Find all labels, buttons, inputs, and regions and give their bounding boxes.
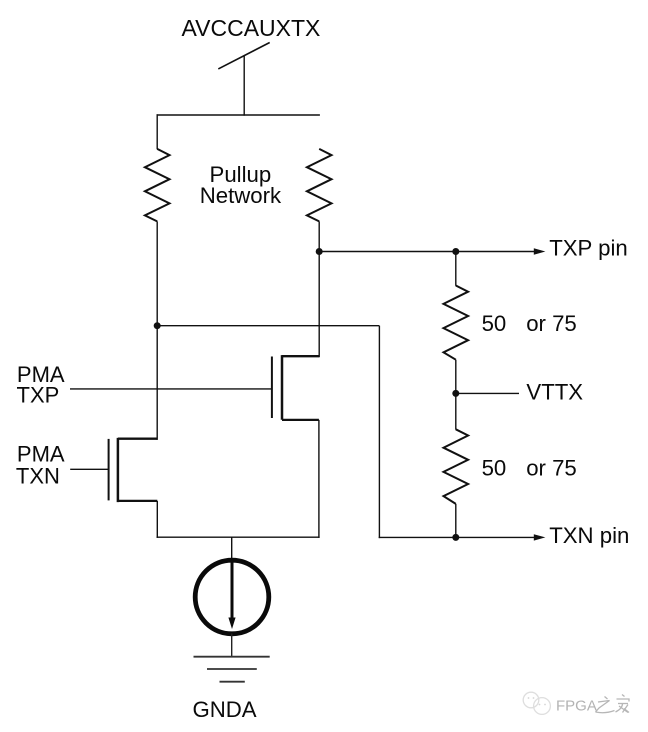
wire VTTX stub: [456, 392, 519, 394]
wire Q2 source down: [156, 501, 158, 538]
watermark glyph zhi: [596, 697, 615, 713]
node VTTX junction dot: [452, 390, 459, 397]
svg-text:FPGA: FPGA: [556, 698, 597, 715]
resistor pullup right: [307, 149, 332, 222]
wire bottom rail: [157, 536, 320, 538]
ground GNDA bar 3: [220, 681, 245, 683]
wire termination bottom stub: [455, 504, 457, 538]
watermark logo face dots: [528, 697, 546, 705]
wire gate PMA TXN: [70, 468, 108, 470]
wire Q1 source down: [318, 420, 320, 538]
transistor Q2 (PMA TXN) gate bar: [108, 439, 110, 501]
node TXP junction dot: [316, 248, 323, 255]
wire current source to ground: [231, 634, 233, 657]
svg-text:TXP pin: TXP pin: [549, 236, 628, 261]
ground GNDA bar 2: [207, 668, 257, 670]
transistor Q1 drain lead: [282, 355, 319, 357]
current source I1 arrowhead: [228, 618, 235, 630]
svg-text:50: 50: [482, 311, 507, 336]
transistor Q2 channel bar: [117, 438, 120, 502]
svg-text:or 75: or 75: [526, 311, 577, 336]
wire tail to current source: [231, 537, 233, 561]
wire top rail: [157, 114, 320, 116]
current source I1 arrow shaft: [231, 561, 234, 620]
watermark logo circle left: [523, 692, 539, 708]
transistor Q2 drain lead: [118, 438, 157, 440]
svg-text:or 75: or 75: [526, 456, 577, 481]
node TXN junction dot: [452, 534, 459, 541]
transistor Q1 source lead: [282, 419, 319, 421]
wire termination top stub: [455, 252, 457, 286]
svg-text:Network: Network: [200, 183, 282, 208]
resistor 50 or 75 lower: [444, 429, 469, 504]
svg-text:VTTX: VTTX: [526, 380, 583, 405]
svg-text:AVCCAUXTX: AVCCAUXTX: [182, 15, 321, 41]
resistor pullup left: [145, 149, 170, 222]
wire left branch upper: [156, 114, 158, 149]
svg-text:TXN: TXN: [16, 463, 60, 488]
wire termination middle stub: [455, 360, 457, 430]
supply stub wire from AVCCAUXTX: [243, 56, 245, 116]
node mid junction dot: [154, 322, 161, 329]
arrowhead TXP pin: [534, 248, 546, 254]
resistor 50 or 75 upper: [444, 286, 469, 360]
transistor Q1 (PMA TXP) gate bar: [271, 357, 273, 419]
current source I1 circle: [195, 560, 269, 634]
arrowhead TXN pin: [534, 534, 546, 540]
supply slash symbol: [218, 43, 269, 69]
watermark logo circle right: [534, 698, 551, 715]
wire TXN line: [379, 536, 535, 538]
svg-text:TXP: TXP: [17, 383, 60, 408]
wire mid horizontal to TXN branch: [157, 325, 379, 327]
svg-text:50: 50: [482, 456, 507, 481]
svg-text:TXN pin: TXN pin: [549, 523, 629, 548]
watermark glyph jia: [616, 695, 630, 713]
ground GNDA bar 1: [194, 656, 270, 658]
wire left branch lower: [156, 221, 158, 440]
transistor Q2 source lead: [118, 500, 157, 502]
svg-text:GNDA: GNDA: [193, 697, 257, 722]
wire TXN vertical branch: [378, 326, 380, 538]
wire right branch lower: [318, 221, 320, 357]
node dot at TXP/termination: [452, 248, 459, 255]
transistor Q1 channel bar: [281, 355, 284, 420]
wire gate PMA TXP: [70, 388, 272, 390]
wire TXP line: [319, 251, 535, 253]
